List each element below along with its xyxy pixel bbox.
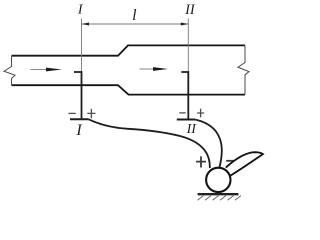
svg-text:I: I bbox=[77, 3, 84, 18]
svg-text:II: II bbox=[186, 122, 198, 137]
svg-text:II: II bbox=[184, 2, 196, 18]
svg-text:l: l bbox=[132, 7, 137, 24]
svg-text:I: I bbox=[75, 122, 82, 139]
